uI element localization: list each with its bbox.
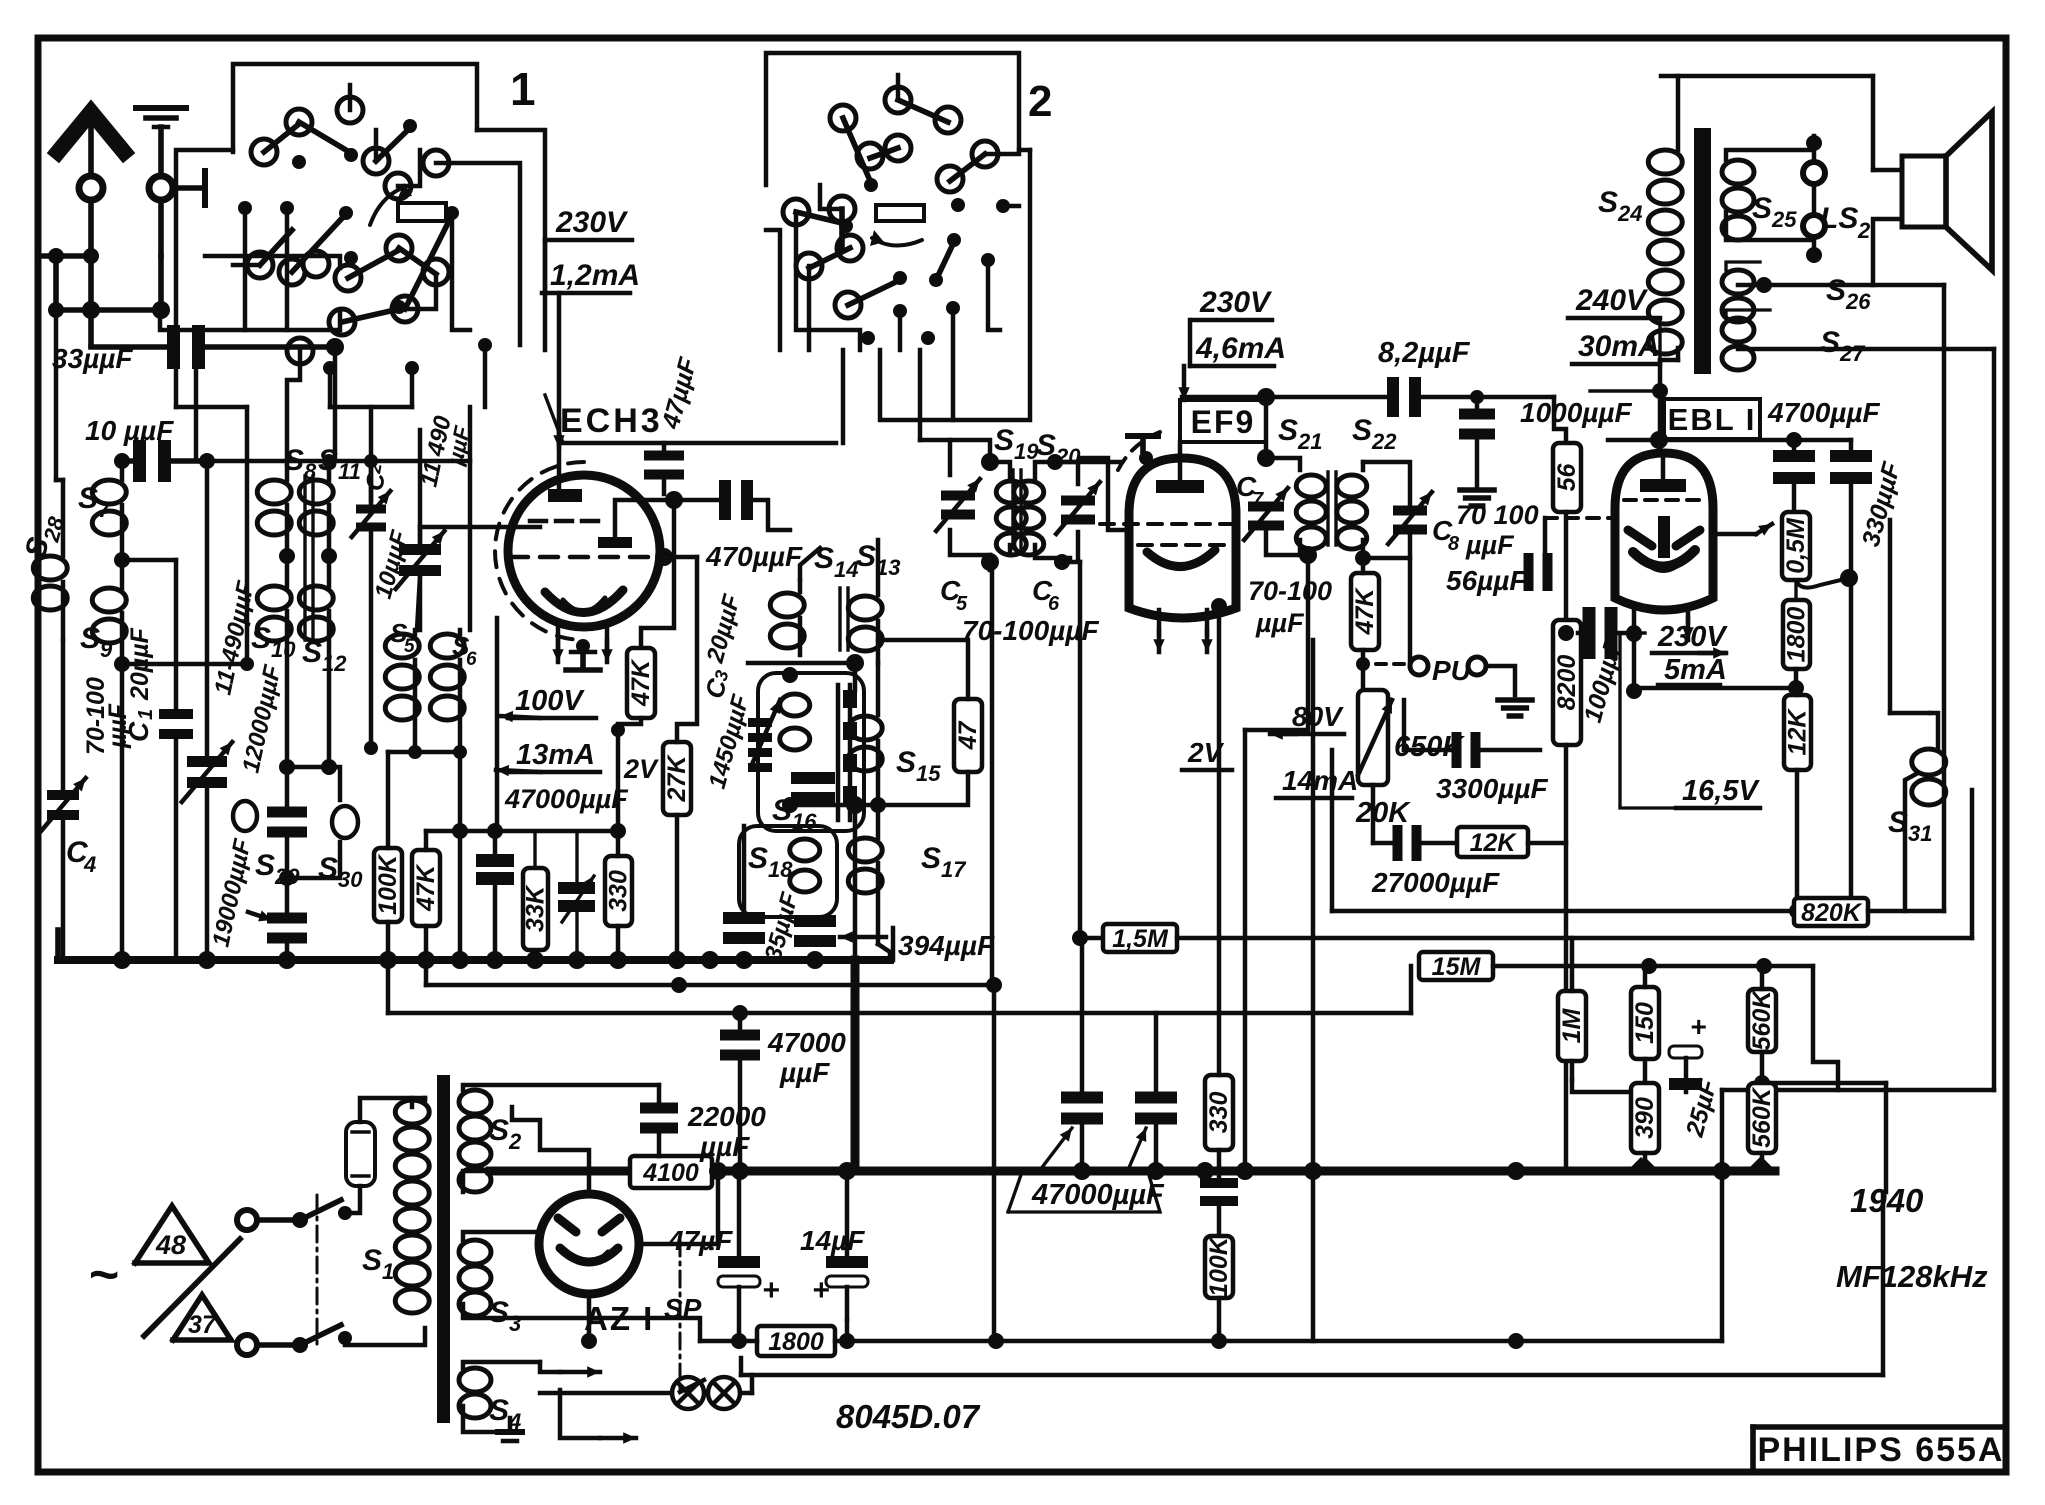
svg-text:1,2mA: 1,2mA: [550, 259, 640, 292]
svg-text:27000µµF: 27000µµF: [1371, 867, 1500, 898]
svg-text:6: 6: [466, 649, 477, 670]
svg-text:100K: 100K: [1205, 1235, 1233, 1297]
resistor 27K: [663, 742, 691, 815]
svg-text:EBL I: EBL I: [1668, 402, 1757, 437]
svg-text:47000µµF: 47000µµF: [1031, 1179, 1165, 1211]
capacitor 47000uuF single: [720, 1030, 760, 1041]
svg-text:394µµF: 394µµF: [898, 930, 995, 961]
tank C6 S20: [1035, 462, 1055, 480]
svg-text:30mA: 30mA: [1578, 330, 1660, 363]
node: [846, 796, 864, 814]
resistor 47K ECH3: [627, 648, 655, 718]
svg-text:1800: 1800: [1783, 607, 1811, 663]
mains terminals: [237, 1210, 257, 1230]
wire S22 right: [1408, 558, 1413, 664]
capacitor 100uuF: [1583, 607, 1596, 659]
svg-text:2: 2: [1028, 77, 1052, 126]
svg-text:22000: 22000: [687, 1101, 766, 1132]
switch 1 plate: [398, 203, 446, 221]
svg-text:230V: 230V: [1657, 621, 1728, 653]
EF9 grid dashes: [1100, 522, 1240, 526]
PU terminals: [1410, 657, 1428, 675]
resistor 1M: [1558, 991, 1586, 1061]
capacitor 450uuF trim: [558, 882, 595, 894]
svg-text:14µF: 14µF: [800, 1225, 865, 1256]
svg-text:20K: 20K: [1355, 797, 1411, 829]
resistor 56: [1553, 443, 1581, 512]
wire: [1055, 460, 1120, 465]
ground S4: [508, 1418, 513, 1432]
resistor 560K a: [1748, 989, 1776, 1052]
svg-text:SP: SP: [664, 1293, 702, 1324]
power transformer core: [437, 1075, 450, 1423]
wire antenna feed: [88, 310, 94, 345]
wire anode top: [557, 293, 562, 489]
wire EF9 top: [1182, 395, 1266, 400]
EBL1 leads: [1632, 610, 1637, 691]
antenna terminal: [79, 176, 103, 200]
svg-text:µµF: µµF: [699, 1131, 750, 1162]
svg-text:4: 4: [83, 852, 96, 877]
switch 1 dots: [292, 155, 306, 169]
svg-text:47K: 47K: [412, 863, 440, 912]
wire top bus: [207, 459, 470, 464]
resistor 33K: [523, 868, 548, 950]
svg-text:1000µµF: 1000µµF: [1520, 397, 1633, 428]
svg-text:70-100: 70-100: [1248, 576, 1332, 606]
leader ECH3: [545, 395, 562, 440]
terminal stub: [173, 185, 205, 191]
tank C5 S19: [920, 438, 950, 443]
resistor 330: [1205, 1075, 1233, 1150]
ECH3 cathode leads: [556, 628, 561, 648]
svg-text:0,5M: 0,5M: [1782, 517, 1810, 574]
wire: [322, 454, 336, 468]
capacitor 4700 b: [1849, 440, 1853, 456]
slash: [144, 1239, 240, 1336]
lamps: [540, 1391, 672, 1396]
AZ1 anode lead: [512, 1107, 589, 1194]
switch 2 plate: [876, 205, 924, 221]
capacitor 47000uuF b: [1135, 1092, 1177, 1104]
wire right margin 3: [1888, 520, 1893, 713]
bus junction dots: [113, 951, 131, 969]
svg-text:150: 150: [1631, 1002, 1659, 1044]
wire transformer bottom: [1652, 383, 1668, 399]
switch 1 contacts: [251, 139, 277, 165]
ECH3 triode anode: [598, 537, 632, 548]
tube EF9: [1129, 458, 1236, 618]
svg-text:µµF: µµF: [1255, 608, 1305, 638]
switch unit 1 wires outer: [233, 64, 477, 152]
resistor 390: [1631, 1083, 1659, 1153]
svg-text:+: +: [1690, 1011, 1706, 1042]
svg-text:48: 48: [155, 1230, 186, 1260]
resistor 100K bottom: [1205, 1236, 1233, 1298]
node A: [48, 248, 64, 264]
svg-text:56µµF: 56µµF: [1446, 565, 1527, 596]
svg-text:1,5M: 1,5M: [1112, 925, 1169, 953]
wire lower: [741, 1373, 1883, 1378]
bus dots: [731, 1162, 749, 1180]
title box line: [1753, 1424, 2006, 1430]
svg-text:14mA: 14mA: [1282, 765, 1358, 796]
svg-text:1800: 1800: [768, 1328, 824, 1356]
svg-text:330: 330: [1205, 1092, 1233, 1134]
wire right margin 2: [1992, 349, 1997, 1090]
ground symbol top: [136, 105, 186, 111]
wire grid2: [641, 500, 674, 645]
svg-text:230V: 230V: [555, 206, 629, 239]
wire y1090: [1722, 1088, 1994, 1093]
svg-text:+: +: [812, 1274, 830, 1307]
resistor 100K: [374, 848, 402, 922]
node: [1508, 1333, 1524, 1349]
S16 trimmer arrow: [753, 700, 780, 762]
svg-text:47000µµF: 47000µµF: [504, 784, 629, 814]
svg-text:5mA: 5mA: [1664, 654, 1727, 686]
capacitor below 330: [1200, 1178, 1238, 1188]
wire cathode row: [388, 750, 460, 755]
switch 2 dots: [864, 178, 878, 192]
svg-text:47µF: 47µF: [667, 1225, 733, 1256]
fuse: [346, 1122, 375, 1186]
svg-text:70 100: 70 100: [1456, 500, 1539, 530]
wire EF9 left: [1080, 458, 1129, 530]
svg-text:47000: 47000: [767, 1027, 846, 1058]
node: [846, 654, 864, 672]
svg-text:2V: 2V: [1187, 737, 1225, 768]
potentiometer 650K: [1358, 690, 1388, 785]
resistor 560K b: [1748, 1083, 1776, 1153]
svg-text:8: 8: [1448, 533, 1460, 555]
wire: [1620, 631, 1645, 634]
IF core S19-S20: [1011, 470, 1014, 548]
caps at S16 left: [748, 718, 772, 727]
wire: [158, 256, 164, 310]
AZ1 output: [639, 1171, 718, 1244]
tube EBL1: [1615, 453, 1713, 610]
wire dashes: [655, 548, 673, 566]
svg-text:4,6mA: 4,6mA: [1195, 332, 1286, 365]
svg-text:3300µµF: 3300µµF: [1436, 773, 1549, 804]
wire to PU dashed: [1376, 662, 1408, 666]
switch 2 arrow: [872, 238, 922, 246]
wire: [992, 985, 997, 1341]
resistor 47: [954, 699, 982, 772]
capacitor 12000uuF: [267, 807, 307, 818]
wire: [122, 558, 176, 563]
wire: [1311, 640, 1316, 1341]
maze1 extra wires: [348, 85, 352, 110]
earth terminal: [149, 176, 173, 200]
svg-text:C: C: [123, 721, 154, 742]
maze1 staircase: [176, 150, 233, 407]
output transformer core: [1694, 128, 1711, 374]
IF core S21-S22: [1326, 472, 1329, 545]
svg-text:820K: 820K: [1801, 899, 1863, 927]
svg-text:560K: 560K: [1748, 1086, 1776, 1148]
svg-text:56: 56: [1553, 463, 1581, 492]
EF9 leads: [1157, 610, 1162, 634]
svg-text:16,5V: 16,5V: [1682, 775, 1760, 807]
ECH3 ground: [576, 639, 590, 653]
svg-text:47: 47: [954, 721, 982, 751]
svg-text:2V: 2V: [623, 754, 659, 784]
box S16: [758, 673, 864, 831]
svg-text:6: 6: [1048, 593, 1060, 615]
svg-text:47K: 47K: [627, 658, 655, 707]
svg-text:2: 2: [1857, 218, 1871, 243]
svg-text:100K: 100K: [374, 853, 402, 915]
wire left edge: [54, 310, 59, 480]
svg-text:PU: PU: [1432, 655, 1472, 686]
trapezoid 47000uuF: [1008, 1172, 1160, 1212]
switch 2 arms: [843, 118, 871, 183]
ground bus: [58, 956, 890, 964]
svg-text:560K: 560K: [1748, 989, 1776, 1051]
resistor 0.5M: [1782, 512, 1810, 580]
wire 820K line: [1332, 909, 1794, 914]
capacitor 27000uuF: [1393, 825, 1403, 861]
EBL1 grids: [1624, 498, 1704, 502]
svg-text:1M: 1M: [1558, 1007, 1586, 1043]
svg-text:~: ~: [88, 1246, 118, 1304]
svg-text:PHILIPS 655A: PHILIPS 655A: [1758, 1431, 2005, 1469]
wire: [129, 662, 247, 667]
wire: [53, 256, 59, 310]
svg-text:8045D.07: 8045D.07: [836, 1398, 981, 1435]
svg-text:13mA: 13mA: [516, 739, 595, 771]
node B: [83, 248, 99, 264]
svg-text:12K: 12K: [1784, 708, 1812, 756]
svg-text:470µµF: 470µµF: [705, 541, 803, 572]
speaker: [1902, 156, 1946, 227]
resistor 12K horizontal: [1457, 827, 1528, 857]
svg-text:AZ I: AZ I: [584, 1300, 654, 1337]
capacitor 47000uuF a: [1061, 1092, 1103, 1104]
wire 1.5M line: [1072, 930, 1088, 946]
switch unit 2 wires: [766, 53, 1019, 185]
switch 1 rotation arrow: [370, 187, 404, 225]
resistor 150: [1631, 987, 1659, 1059]
arrow marks on bus: [1627, 1157, 1655, 1171]
svg-text:12K: 12K: [1470, 829, 1518, 857]
svg-text:4700µµF: 4700µµF: [1767, 397, 1881, 428]
svg-text:1: 1: [135, 709, 157, 720]
svg-text:EF9: EF9: [1191, 404, 1256, 440]
svg-text:5: 5: [956, 593, 968, 615]
svg-text:µµF: µµF: [1465, 530, 1515, 560]
IF core S8-S11: [303, 476, 306, 640]
heavy vertical: [853, 805, 858, 960]
wire to 56: [1554, 397, 1566, 443]
resistor 1800 bottom: [757, 1326, 835, 1356]
svg-text:8,2µµF: 8,2µµF: [1378, 337, 1471, 369]
switch 2 contacts: [885, 87, 911, 113]
resistor 4100: [630, 1156, 712, 1188]
EBL1 grid wire right: [1713, 532, 1756, 537]
lamp arrows: [560, 1370, 600, 1375]
svg-text:47K: 47K: [1351, 587, 1379, 636]
capacitor 4700 a: [1773, 450, 1815, 462]
resistor 12K vert: [1784, 695, 1811, 770]
wire right margin 1: [1942, 285, 1947, 911]
maze2 wires: [766, 230, 780, 350]
svg-text:37: 37: [188, 1311, 217, 1339]
svg-text:1: 1: [510, 63, 536, 115]
resistor 47K right: [1351, 573, 1379, 650]
maze1 wires: [160, 310, 340, 330]
svg-text:MF128kHz: MF128kHz: [1836, 1259, 1988, 1294]
wire step to 15M: [1409, 966, 1413, 1013]
svg-text:390: 390: [1631, 1097, 1659, 1139]
svg-text:ECH3: ECH3: [560, 402, 663, 440]
rail: [426, 829, 618, 834]
resistor 330: [605, 856, 632, 926]
IF core S13-S14: [838, 588, 841, 650]
svg-text:330: 330: [605, 870, 633, 912]
coil S28: [33, 556, 67, 580]
svg-text:15M: 15M: [1432, 953, 1482, 981]
svg-text:4100: 4100: [642, 1159, 699, 1187]
svg-text:µµF: µµF: [779, 1057, 830, 1088]
ECH3 cathode arc: [545, 590, 623, 613]
capacitor 3300uuF: [1452, 732, 1462, 768]
speaker wires: [1871, 76, 1876, 170]
box S18: [739, 826, 837, 917]
resistor 1800: [1783, 600, 1810, 669]
svg-text:8200: 8200: [1553, 655, 1581, 711]
svg-text:20µµF: 20µµF: [126, 627, 154, 701]
label 100V 13mA II: [495, 618, 500, 831]
tube EF9 label: [1180, 400, 1266, 442]
antenna: [58, 112, 124, 152]
T symbol: [1128, 433, 1158, 439]
svg-text:+: +: [762, 1274, 780, 1307]
wire AZ1 bottom: [587, 1294, 592, 1341]
tube EBL1 label: [1664, 399, 1760, 439]
B+ bus: [490, 1167, 1775, 1176]
resistor 47K left: [412, 850, 440, 926]
triangle 37: [173, 1295, 231, 1340]
ECH3 grids: [530, 519, 546, 524]
EBL1 electrodes: [1658, 516, 1670, 558]
wire EBL1 top: [1608, 438, 1851, 443]
svg-text:240V: 240V: [1575, 284, 1649, 317]
triangle 48: [135, 1206, 209, 1263]
svg-text:100V: 100V: [515, 685, 585, 717]
svg-text:33K: 33K: [522, 884, 550, 932]
switch 1 arms: [264, 124, 299, 152]
caps below S16: [791, 772, 835, 784]
wire bus2: [426, 983, 994, 988]
wire bus3: [388, 1011, 1411, 1016]
wire 15M line: [1419, 952, 1493, 980]
maze2 extra: [896, 75, 900, 100]
svg-text:230V: 230V: [1199, 286, 1273, 319]
svg-text:80V: 80V: [1292, 701, 1344, 732]
EF9 cathode: [1147, 550, 1215, 567]
svg-text:27K: 27K: [663, 754, 691, 803]
mains switch: [257, 1217, 294, 1223]
resistor 8200: [1553, 620, 1581, 745]
